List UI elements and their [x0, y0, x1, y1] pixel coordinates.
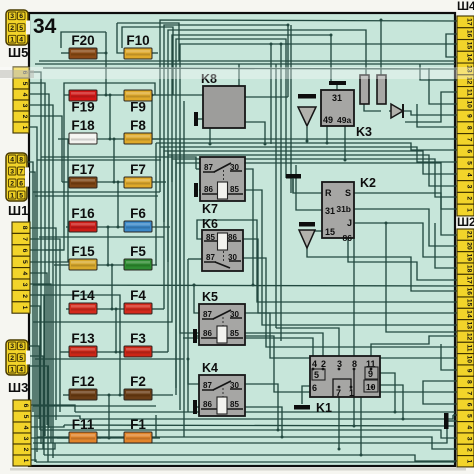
svg-text:2: 2 [21, 115, 28, 119]
svg-text:F12: F12 [71, 374, 94, 389]
svg-text:4: 4 [19, 37, 23, 44]
svg-text:21: 21 [466, 231, 473, 239]
svg-text:7: 7 [336, 388, 341, 398]
svg-text:K1: K1 [316, 401, 332, 415]
svg-text:8: 8 [352, 359, 357, 369]
svg-text:Ш5: Ш5 [8, 45, 28, 60]
svg-text:2: 2 [466, 448, 473, 452]
svg-text:2: 2 [10, 355, 14, 362]
svg-text:4: 4 [312, 359, 317, 369]
svg-text:F4: F4 [130, 288, 146, 303]
svg-text:F6: F6 [130, 206, 146, 221]
svg-text:1: 1 [10, 192, 14, 199]
svg-text:F11: F11 [72, 417, 95, 432]
svg-text:4: 4 [466, 425, 473, 429]
svg-text:85: 85 [230, 185, 239, 194]
svg-text:F10: F10 [126, 33, 149, 48]
svg-text:49a: 49a [337, 115, 351, 125]
svg-text:5: 5 [19, 25, 23, 32]
svg-text:J: J [347, 218, 352, 228]
svg-text:K4: K4 [202, 361, 218, 375]
svg-text:4: 4 [10, 156, 14, 163]
svg-text:F1: F1 [130, 417, 146, 432]
svg-text:2: 2 [21, 294, 28, 298]
svg-text:2: 2 [321, 359, 326, 369]
svg-text:8: 8 [21, 226, 28, 230]
svg-text:5: 5 [21, 82, 28, 86]
svg-text:3: 3 [10, 343, 14, 350]
svg-text:F13: F13 [71, 331, 95, 346]
svg-text:K2: K2 [360, 176, 376, 190]
svg-text:18: 18 [466, 265, 473, 273]
svg-text:5: 5 [466, 414, 473, 418]
svg-text:15: 15 [466, 299, 473, 307]
svg-text:Ш4: Ш4 [457, 0, 474, 13]
svg-text:8: 8 [466, 380, 473, 384]
svg-text:2: 2 [466, 196, 473, 200]
svg-text:Ш1: Ш1 [8, 203, 28, 218]
svg-text:1: 1 [21, 126, 28, 130]
svg-text:15: 15 [466, 42, 473, 50]
svg-text:6: 6 [312, 383, 317, 393]
svg-text:19: 19 [466, 254, 473, 262]
svg-text:16: 16 [466, 30, 473, 38]
svg-text:2: 2 [10, 25, 14, 32]
svg-text:3: 3 [21, 283, 28, 287]
svg-text:14: 14 [466, 53, 473, 61]
svg-text:3: 3 [466, 437, 473, 441]
svg-text:86: 86 [343, 233, 353, 243]
svg-text:F8: F8 [130, 118, 146, 133]
svg-text:31: 31 [332, 93, 342, 103]
svg-text:85: 85 [230, 400, 239, 409]
svg-text:F2: F2 [130, 374, 146, 389]
svg-text:K3: K3 [356, 125, 372, 139]
svg-text:F3: F3 [130, 331, 146, 346]
svg-text:87: 87 [203, 310, 212, 319]
svg-text:17: 17 [466, 18, 473, 26]
svg-text:1: 1 [10, 367, 14, 374]
svg-text:3: 3 [22, 437, 29, 441]
svg-text:6: 6 [19, 180, 23, 187]
svg-text:87: 87 [203, 381, 212, 390]
svg-text:6: 6 [21, 249, 28, 253]
svg-text:9: 9 [466, 369, 473, 373]
svg-text:5: 5 [19, 355, 23, 362]
svg-text:1: 1 [10, 37, 14, 44]
svg-text:31: 31 [325, 206, 335, 216]
svg-text:3: 3 [21, 104, 28, 108]
svg-text:11: 11 [466, 89, 473, 96]
svg-text:86: 86 [203, 329, 212, 338]
svg-text:7: 7 [466, 138, 473, 142]
svg-text:F20: F20 [71, 33, 94, 48]
svg-text:3: 3 [466, 185, 473, 189]
svg-text:3: 3 [337, 359, 342, 369]
svg-text:87: 87 [204, 163, 213, 172]
svg-text:1: 1 [21, 306, 28, 310]
svg-text:Ш3: Ш3 [8, 380, 28, 395]
svg-text:6: 6 [466, 403, 473, 407]
svg-text:7: 7 [466, 391, 473, 395]
svg-text:10: 10 [466, 100, 473, 108]
svg-text:7: 7 [19, 168, 23, 175]
svg-text:14: 14 [466, 310, 473, 318]
svg-text:1: 1 [466, 459, 473, 463]
svg-text:F9: F9 [130, 100, 146, 115]
svg-text:F14: F14 [71, 288, 95, 303]
svg-text:K6: K6 [202, 217, 218, 231]
svg-text:Ш2: Ш2 [457, 215, 474, 229]
svg-text:5: 5 [19, 192, 23, 199]
svg-text:K7: K7 [202, 202, 218, 216]
svg-text:9: 9 [466, 114, 473, 118]
svg-text:S: S [345, 188, 351, 198]
svg-text:2: 2 [10, 180, 14, 187]
svg-text:F7: F7 [130, 162, 146, 177]
svg-text:85: 85 [230, 329, 239, 338]
svg-text:13: 13 [466, 322, 473, 330]
svg-text:4: 4 [21, 271, 28, 275]
svg-text:34: 34 [33, 15, 57, 38]
svg-text:4: 4 [21, 93, 28, 97]
svg-text:6: 6 [19, 13, 23, 20]
svg-text:F19: F19 [71, 100, 94, 115]
svg-text:F16: F16 [71, 206, 95, 221]
svg-text:15: 15 [325, 227, 335, 237]
svg-text:31b: 31b [336, 204, 351, 214]
svg-text:5: 5 [466, 161, 473, 165]
svg-text:4: 4 [22, 426, 29, 430]
svg-text:86: 86 [203, 400, 212, 409]
svg-text:7: 7 [21, 237, 28, 241]
svg-text:F5: F5 [130, 244, 146, 259]
svg-text:6: 6 [466, 149, 473, 153]
svg-text:R: R [325, 188, 332, 198]
svg-text:3: 3 [10, 13, 14, 20]
svg-text:10: 10 [466, 356, 473, 364]
svg-text:86: 86 [204, 185, 213, 194]
svg-text:2: 2 [22, 448, 29, 452]
svg-text:3: 3 [10, 168, 14, 175]
svg-text:11: 11 [466, 344, 473, 351]
svg-text:1: 1 [22, 459, 29, 463]
svg-text:12: 12 [466, 333, 473, 341]
svg-text:6: 6 [22, 404, 29, 408]
svg-text:9: 9 [368, 369, 373, 379]
svg-text:5: 5 [314, 370, 319, 380]
svg-text:5: 5 [21, 260, 28, 264]
svg-text:4: 4 [19, 367, 23, 374]
svg-text:6: 6 [19, 343, 23, 350]
svg-text:K5: K5 [202, 290, 218, 304]
svg-text:8: 8 [466, 126, 473, 130]
svg-text:F17: F17 [71, 162, 94, 177]
svg-text:F15: F15 [71, 244, 95, 259]
svg-text:20: 20 [466, 242, 473, 250]
svg-text:8: 8 [19, 156, 23, 163]
svg-text:49: 49 [323, 115, 333, 125]
svg-text:87: 87 [206, 253, 215, 262]
svg-text:17: 17 [466, 276, 473, 284]
svg-text:16: 16 [466, 288, 473, 296]
svg-text:1: 1 [466, 208, 473, 212]
svg-text:5: 5 [22, 415, 29, 419]
svg-text:4: 4 [466, 173, 473, 177]
svg-text:F18: F18 [71, 118, 95, 133]
